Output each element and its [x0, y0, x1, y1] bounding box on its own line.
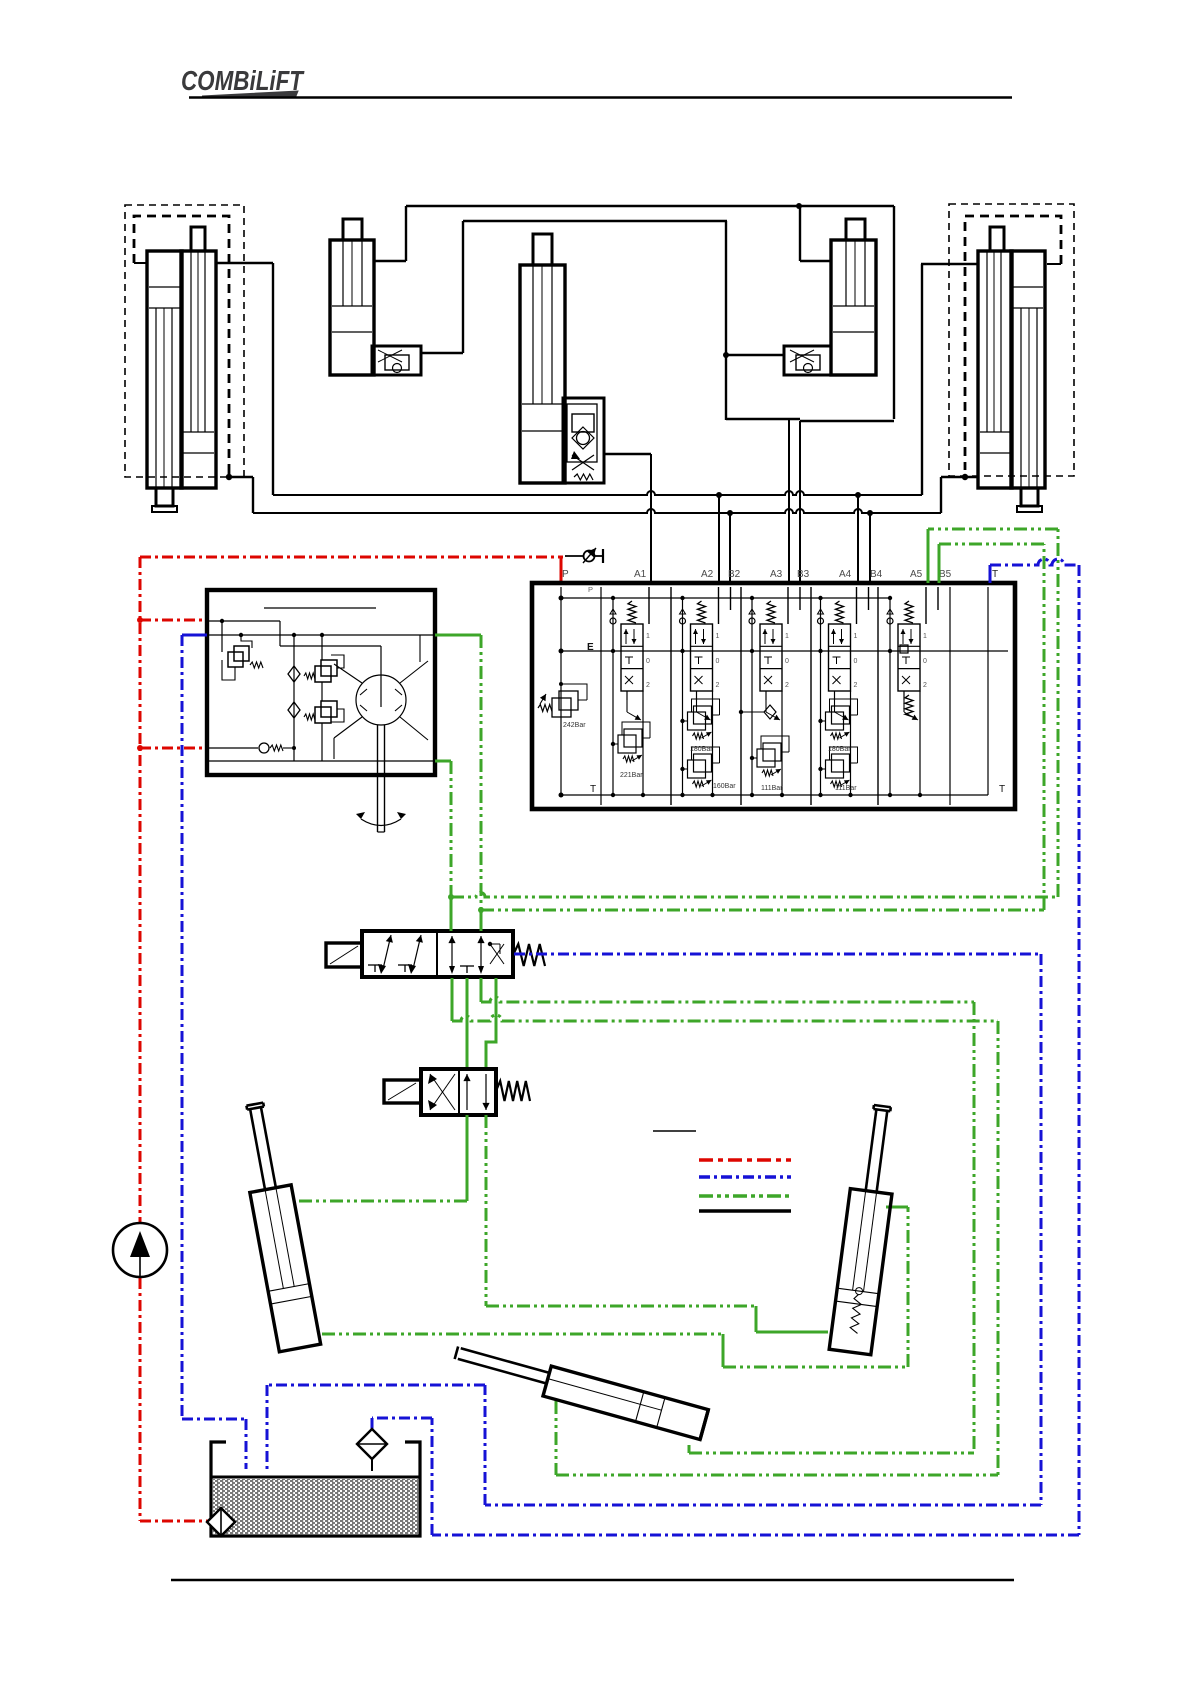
green rail tilt base right — [486, 1306, 828, 1332]
steering unit title line — [264, 607, 376, 609]
green junction steer-R — [478, 907, 484, 913]
lock valve V3 on C7 — [784, 346, 831, 375]
svg-text:0: 0 — [646, 658, 650, 665]
svg-text:160Bar: 160Bar — [713, 783, 736, 790]
lowering control valve V2 on C6 — [563, 398, 604, 483]
footer rule — [171, 1579, 1014, 1581]
svg-text:A4: A4 — [839, 569, 852, 580]
green drop SV10 port4 — [486, 978, 496, 1067]
legend steering line — [699, 1194, 791, 1197]
green drop SV10 port1 — [451, 978, 454, 1021]
steering unit U1 enclosure — [207, 590, 435, 775]
spring of SV10 — [513, 944, 545, 966]
tilt cylinder C8 left — [234, 1100, 320, 1352]
steering relief valve RV1 — [222, 621, 263, 680]
tilt cylinder C9 right — [829, 1103, 903, 1354]
svg-text:2: 2 — [785, 682, 789, 689]
green rail tilt rod side — [299, 1200, 467, 1203]
wire B2 to bank — [729, 513, 731, 583]
junction left mast bottom — [226, 474, 232, 480]
valve section DV3 (A3 B3) — [739, 587, 800, 797]
svg-text:B4: B4 — [870, 569, 883, 580]
wire B3 down to bank — [799, 421, 801, 583]
wire A4 to bank — [857, 495, 859, 583]
red pressure line pump to system — [140, 557, 563, 1222]
green rail sideshift A — [481, 997, 974, 1002]
green trunk B5 — [939, 544, 1044, 910]
svg-text:1: 1 — [646, 633, 650, 640]
green line steering L to SV10 (A5) — [435, 635, 481, 931]
valve bank internal rails — [559, 587, 1009, 805]
svg-text:P: P — [588, 585, 593, 594]
wire top bus drop to C7 port — [800, 206, 831, 261]
svg-text:T: T — [590, 784, 596, 795]
svg-text:1: 1 — [716, 633, 720, 640]
junction right mast bottom — [962, 474, 968, 480]
blue return steering to tank — [182, 635, 246, 1469]
legend tank line — [699, 1175, 791, 1178]
svg-text:221Bar: 221Bar — [620, 772, 643, 779]
svg-text:180Bar: 180Bar — [828, 746, 851, 753]
cylinder C2 right barrel (rod up) — [181, 251, 216, 488]
left mast outer dashed enclosure — [125, 205, 244, 477]
junction bus1 A2 — [716, 492, 722, 498]
steering check valve CV1 — [288, 635, 300, 761]
wire A3 down to bank — [788, 420, 790, 583]
cylinder C7 rod end top — [846, 219, 865, 240]
green line steering R to SV10 (B5) — [435, 761, 451, 931]
svg-text:2: 2 — [646, 682, 650, 689]
solenoid valve SV11 (tilt lock 4/2) — [421, 1069, 496, 1115]
junction bus2 B4 — [867, 510, 873, 516]
valve bank VB1 body — [532, 583, 1015, 809]
blue return SV10 pilot — [267, 954, 1041, 1505]
green junction steer-L — [448, 894, 454, 900]
wire right lock valve riser — [726, 221, 784, 420]
sideshift cylinder C10 — [451, 1341, 708, 1440]
svg-text:0: 0 — [854, 658, 858, 665]
tank T1 shell — [211, 1442, 420, 1536]
legend pressure line — [699, 1158, 791, 1161]
wire bus2 — [229, 477, 978, 513]
svg-text:2: 2 — [716, 682, 720, 689]
svg-text:242Bar: 242Bar — [563, 722, 586, 729]
green drop SV11 to tilt rod side — [466, 1115, 469, 1201]
cylinder C2 rod end top — [191, 227, 205, 251]
wire C1 top port to bus1 — [216, 263, 273, 495]
cylinder C4 rod end bottom — [1017, 488, 1042, 512]
valve section DV4 (A4 B4) — [818, 587, 869, 797]
svg-text:B2: B2 — [728, 569, 741, 580]
green trunk sideshift B — [997, 1021, 1000, 1475]
legend tick — [653, 1130, 696, 1132]
junction at lock valve tee — [723, 352, 729, 358]
svg-text:111Bar: 111Bar — [761, 785, 783, 792]
wire A2 to bank — [718, 495, 720, 583]
svg-text:B3: B3 — [797, 569, 810, 580]
cylinder C5 rod end top — [343, 219, 362, 240]
steering shock valve SV2 — [304, 682, 344, 761]
svg-text:1: 1 — [854, 633, 858, 640]
green rail B5 to steering — [481, 909, 1044, 912]
svg-text:111Bar: 111Bar — [835, 785, 857, 792]
svg-text:T: T — [999, 784, 1005, 795]
green trunk sideshift A — [973, 1002, 976, 1453]
steering internal port gallery — [207, 633, 435, 637]
cylinder C3 left barrel (rod up) — [978, 251, 1012, 488]
cylinder C3 rod end top — [990, 227, 1004, 251]
red branch to steering P port — [137, 617, 207, 623]
green rail A5 to steering — [451, 893, 1058, 898]
green rail sideshift B bottom — [556, 1401, 998, 1475]
cylinder C1 left barrel (rod down) — [147, 251, 182, 488]
solenoid coil of SV10 — [326, 943, 362, 967]
svg-text:E: E — [587, 642, 594, 653]
svg-text:180Bar: 180Bar — [690, 746, 713, 753]
svg-text:A2: A2 — [701, 569, 714, 580]
left mast inner dashed enclosure — [134, 216, 229, 470]
right mast outer dashed enclosure — [949, 204, 1074, 476]
svg-text:A1: A1 — [634, 569, 647, 580]
steering internal P gallery — [207, 619, 381, 646]
cylinder C1 rod end bottom — [152, 488, 177, 512]
valve bank labels E T P — [587, 585, 1005, 795]
wire bus1 — [273, 264, 978, 495]
steering internal return gallery — [207, 760, 435, 762]
svg-text:B5: B5 — [939, 569, 952, 580]
wire B4 to bank — [869, 513, 871, 583]
steering anti-cavitation check — [207, 743, 296, 753]
svg-text:0: 0 — [923, 658, 927, 665]
cylinder C4 right barrel (rod down) — [1011, 251, 1045, 488]
wire A1 from V2 to bank — [604, 454, 651, 583]
breather filter F2 — [357, 1429, 387, 1471]
steering metering unit (gerotor) — [334, 635, 428, 759]
svg-text:2: 2 — [923, 682, 927, 689]
green drop SV11 to tilt base side — [485, 1115, 488, 1306]
green rail sideshift B — [452, 1015, 998, 1021]
steering shock valve SV1 — [304, 635, 344, 682]
svg-text:0: 0 — [716, 658, 720, 665]
spring of SV11 — [496, 1081, 530, 1101]
green drop SV10 port2 — [466, 978, 469, 1067]
green drop SV10 port3 — [480, 978, 483, 1002]
cylinder C6 barrel — [520, 265, 565, 483]
Combilift logo — [181, 65, 305, 96]
solenoid valve SV10 (mast select 6/3) — [362, 931, 513, 977]
red suction line pump to tank — [140, 1278, 211, 1521]
wire C1 bottom hose dashed — [228, 470, 231, 477]
header rule — [189, 96, 1012, 98]
lock valve V1 on C5 — [372, 346, 421, 375]
svg-text:T: T — [992, 569, 998, 580]
junction bus1 A4 — [855, 492, 861, 498]
inlet relief valve 242Bar — [538, 682, 587, 729]
right mast inner dashed enclosure — [965, 216, 1061, 470]
solenoid coil of SV11 — [384, 1080, 421, 1103]
wire second bus (lock valves) — [421, 221, 727, 353]
junction at top bus x799 — [796, 203, 802, 209]
valve bank port labels — [562, 569, 998, 580]
cylinder C5 barrel — [330, 240, 374, 375]
red branch to steering T port — [137, 745, 207, 751]
green rail tilt base left — [322, 1207, 908, 1367]
green trunk A5 — [928, 529, 1058, 897]
cylinder C7 barrel — [831, 240, 876, 375]
pressure test point M1 — [565, 548, 603, 563]
legend cylinder line — [699, 1209, 791, 1212]
svg-text:2: 2 — [854, 682, 858, 689]
svg-text:A3: A3 — [770, 569, 783, 580]
svg-text:A5: A5 — [910, 569, 923, 580]
blue return bank T — [372, 559, 1079, 1535]
valve section DV5 (A5 B5) — [887, 587, 938, 797]
pump P1 — [113, 1223, 167, 1277]
wire top bus (mast rod side to B3) — [374, 206, 894, 261]
svg-text:1: 1 — [785, 633, 789, 640]
valve section DV2 (A2 B2) — [680, 587, 737, 797]
svg-text:P: P — [562, 569, 569, 580]
steering column shaft — [356, 725, 406, 832]
wire B3 link — [726, 206, 894, 421]
svg-text:0: 0 — [785, 658, 789, 665]
green rail sideshift A bottom — [689, 1445, 974, 1453]
valve section DV1 (A1) — [610, 587, 650, 797]
suction strainer F1 — [207, 1508, 235, 1536]
junction bus2 B2 — [727, 510, 733, 516]
svg-text:1: 1 — [923, 633, 927, 640]
tank T1 fluid — [211, 1477, 420, 1534]
cylinder C6 rod end top — [533, 234, 552, 265]
